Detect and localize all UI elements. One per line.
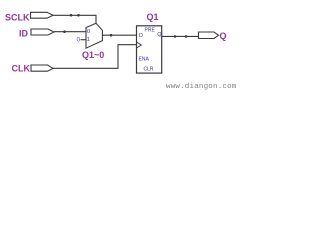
wire CLK to flip-flop clock (53, 45, 137, 69)
svg-text:0: 0 (87, 29, 90, 35)
svg-text:Q1: Q1 (147, 12, 159, 22)
junction dot on ID wire (63, 30, 66, 33)
wire Q output (162, 35, 199, 37)
junction dot on SCLK wire (77, 14, 80, 17)
mux Q1~0 (86, 23, 102, 48)
junction dot on Q wire (174, 35, 177, 38)
junction dot on Q wire (185, 35, 188, 38)
svg-text:CLK: CLK (12, 64, 31, 74)
svg-text:PRE: PRE (145, 28, 156, 34)
flip-flop Q1 (137, 26, 163, 73)
input port SCLK (5, 12, 53, 22)
junction dot on SCLK wire (70, 14, 73, 17)
svg-text:0: 0 (77, 37, 81, 44)
wire constant 0 stub to mux input 1 (81, 39, 87, 41)
wire SCLK to mux select (53, 15, 96, 23)
wire ID to mux input 0 (54, 31, 86, 33)
svg-text:D: D (139, 33, 143, 39)
svg-text:SCLK: SCLK (5, 13, 30, 23)
svg-text:Q: Q (220, 31, 227, 41)
svg-text:Q1~0: Q1~0 (82, 50, 104, 60)
svg-text:1: 1 (87, 37, 90, 43)
output port Q (199, 31, 227, 41)
svg-text:CLR: CLR (144, 67, 154, 73)
junction dot on D wire (110, 34, 113, 37)
svg-text:www.diangon.com: www.diangon.com (166, 83, 237, 91)
svg-text:Q: Q (157, 32, 162, 38)
input port ID (19, 29, 54, 39)
input port CLK (12, 64, 54, 74)
svg-text:ENA: ENA (139, 57, 150, 63)
svg-text:ID: ID (19, 29, 29, 39)
wire mux output to D (102, 34, 136, 36)
